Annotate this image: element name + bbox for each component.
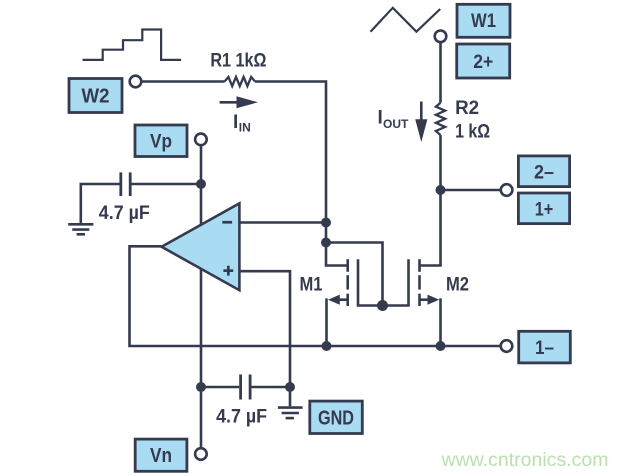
junction dot M1 source on rail xyxy=(322,341,332,351)
ground (top left) xyxy=(68,223,93,226)
wire W1 terminal to resistor R2 xyxy=(439,43,442,103)
label box W2 xyxy=(69,79,122,113)
junction dot Vp/C1 xyxy=(196,179,206,189)
svg-text:R2: R2 xyxy=(455,97,479,119)
MOSFET M2 source arrow xyxy=(428,295,440,305)
capacitor C2 lead right xyxy=(252,386,291,389)
svg-text:2–: 2– xyxy=(534,162,554,183)
resistor R1 xyxy=(225,77,255,86)
svg-text:I: I xyxy=(233,112,238,133)
op-amp output feedback wire to bottom rail xyxy=(130,246,501,346)
terminal W1 xyxy=(435,31,447,43)
svg-text:Vp: Vp xyxy=(150,131,172,153)
terminal Vp xyxy=(195,134,207,146)
MOSFET M2 source lead xyxy=(420,300,440,346)
label box 1- xyxy=(519,331,571,363)
svg-text:I: I xyxy=(378,107,383,128)
label box W1 xyxy=(457,4,510,37)
resistor R2 xyxy=(436,103,445,135)
node C junction dot (gates) xyxy=(377,300,388,311)
triangle waveform at W1 xyxy=(371,8,441,32)
svg-text:Vn: Vn xyxy=(150,445,172,467)
svg-text:2+: 2+ xyxy=(473,52,493,73)
svg-text:GND: GND xyxy=(318,408,354,430)
svg-text:1 kΩ: 1 kΩ xyxy=(455,120,490,142)
capacitor C1 lead right xyxy=(132,183,202,186)
wire W2 terminal to resistor R1 xyxy=(142,80,225,83)
wire node B to gates node C xyxy=(326,243,383,306)
ground (bottom) xyxy=(289,387,292,406)
op-amp minus sign xyxy=(222,221,232,224)
MOSFET M1 source lead xyxy=(327,300,347,346)
supply rail Vp to Vn (passes behind op-amp) xyxy=(200,146,203,448)
capacitor C2 lead left xyxy=(201,386,239,389)
node B junction dot xyxy=(321,238,331,248)
junction dot Vn/C2 xyxy=(196,382,206,392)
terminal Vn xyxy=(195,448,207,460)
staircase waveform at W2 xyxy=(83,30,182,60)
capacitor C2 plates xyxy=(239,375,242,400)
wire node D to terminal 2-/1+ xyxy=(441,189,501,192)
MOSFET M1 source arrow xyxy=(328,295,340,305)
label box 2- xyxy=(518,156,569,187)
terminal 1- xyxy=(501,340,513,352)
svg-text:OUT: OUT xyxy=(383,117,409,131)
capacitor C1 plates xyxy=(119,172,122,196)
wire op-amp inverting input to node A xyxy=(239,221,326,224)
terminal W2 xyxy=(130,76,142,88)
current arrow IIN xyxy=(220,101,238,104)
current arrow IOUT xyxy=(420,102,423,122)
label box Vn xyxy=(135,439,187,471)
label box 1+ xyxy=(518,193,569,224)
label box 2+ xyxy=(457,44,510,78)
svg-text:M2: M2 xyxy=(446,273,469,295)
svg-text:4.7 µF: 4.7 µF xyxy=(99,203,150,224)
svg-text:IN: IN xyxy=(239,121,251,135)
MOSFET M1 gate bar and gate lead to node C xyxy=(358,259,383,305)
wire R2 to node D xyxy=(439,135,442,190)
MOSFET M2 gate bar and gate lead to node C xyxy=(383,259,409,305)
wire node A to node B xyxy=(325,223,328,243)
label box GND xyxy=(310,401,363,433)
wire R1 to node A xyxy=(255,82,326,223)
junction dot C2/ground xyxy=(285,382,295,392)
svg-text:1–: 1– xyxy=(535,338,554,359)
wire node B to M1 drain xyxy=(326,243,347,266)
node A junction dot xyxy=(321,218,331,228)
junction dot M2 source on rail xyxy=(436,341,446,351)
svg-text:W2: W2 xyxy=(82,86,110,108)
svg-text:R1 1kΩ: R1 1kΩ xyxy=(210,50,266,72)
terminal 2-/1+ xyxy=(501,184,513,196)
MOSFET M2 drain lead xyxy=(420,190,440,266)
svg-text:M1: M1 xyxy=(300,273,323,295)
svg-text:www.cntronics.com: www.cntronics.com xyxy=(440,450,608,471)
label box Vp xyxy=(135,125,187,157)
op-amp U1 xyxy=(162,203,240,290)
svg-text:4.7 µF: 4.7 µF xyxy=(216,407,267,428)
op-amp plus sign xyxy=(223,269,233,272)
node D junction dot xyxy=(436,185,446,195)
MOSFET M2 channel (dashed bar) xyxy=(418,259,421,272)
svg-text:1+: 1+ xyxy=(535,199,554,220)
svg-text:W1: W1 xyxy=(471,11,496,32)
wire op-amp non-inverting input to ground node xyxy=(239,271,290,387)
capacitor C1 lead left xyxy=(81,184,120,223)
MOSFET M1 channel (dashed bar) xyxy=(346,259,349,272)
